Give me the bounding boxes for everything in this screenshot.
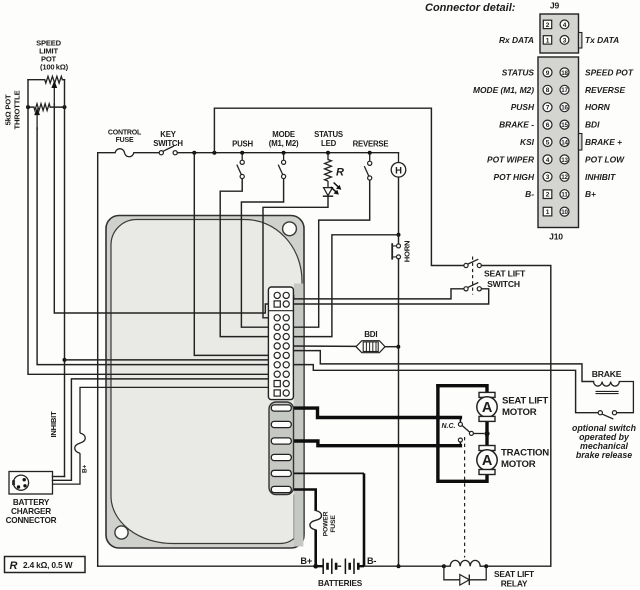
pin J10 right row3 [283,334,289,340]
pin J10 left row5 [274,352,280,358]
svg-text:SWITCH: SWITCH [487,279,520,289]
J9 connector box [540,14,579,53]
controller outer body [106,216,304,549]
svg-text:INHIBIT: INHIBIT [585,172,616,182]
pin J9-1 [274,301,280,307]
svg-text:STATUS: STATUS [314,130,343,139]
J10 detail pin 9 [543,68,552,77]
svg-text:MODE (M1, M2): MODE (M1, M2) [473,85,534,95]
pin J10 left row3 [274,334,280,340]
J10 detail pin 18 [560,68,569,77]
svg-text:LED: LED [321,139,337,148]
brake coil [594,382,634,413]
wire bottom rail right segment [364,565,444,567]
svg-text:Rx DATA: Rx DATA [499,35,534,45]
svg-text:TRACTION: TRACTION [501,448,549,459]
svg-text:SEAT LIFT: SEAT LIFT [484,269,526,279]
J10 detail pin 17 [560,85,569,94]
mounting hole top-right [283,222,297,236]
wire motor loop top [438,386,487,393]
wire mode to pin row2 [241,179,283,328]
svg-text:A: A [482,400,493,416]
J10 detail pin 2 [543,190,552,199]
svg-text:6: 6 [546,122,550,129]
J10 detail pin 8 [543,85,552,94]
wire M1 tab to seat lift motor top [291,408,460,417]
J9 detail pin 4 [560,20,569,29]
connector J9/J10 pin strip [268,287,293,400]
J10 connector box [538,57,579,228]
wire speed pot left lead [28,79,45,81]
J10 detail pin 5 [543,138,552,147]
svg-text:4: 4 [546,157,550,164]
horn pushbutton [392,243,400,259]
J10 detail pin 12 [560,172,569,181]
throttle pot wiper arrow [36,114,38,130]
svg-text:MODE: MODE [272,130,295,139]
wire reverse to pin row2 right [289,180,370,327]
wire bottom rail left segment [98,565,316,567]
brake coil core lines [596,391,619,393]
svg-text:B-: B- [367,556,376,566]
junction top rect branch [212,151,216,155]
svg-text:HORN: HORN [585,102,611,112]
status LED [323,181,342,196]
pin J10 left row9 [274,390,280,396]
svg-text:B+: B+ [585,189,596,199]
svg-text:BRAKE +: BRAKE + [585,137,622,147]
power tab 5 [271,470,291,476]
svg-text:INHIBIT: INHIBIT [49,411,58,438]
svg-text:B+: B+ [82,465,89,473]
svg-text:THROTTLE: THROTTLE [13,90,22,129]
svg-text:POT WIPER: POT WIPER [487,154,534,164]
junction inhibit branch [63,358,67,362]
svg-text:1: 1 [546,209,550,216]
pin J10 right row9 [283,390,289,396]
wire top loop to seat lift switch [214,108,463,265]
svg-text:2: 2 [546,192,550,199]
controller inner face [111,220,302,544]
seat lift switch upper pole [464,259,482,267]
svg-text:MOTOR: MOTOR [502,407,537,418]
J9 detail pin 1 [543,36,551,44]
pin J10 right row7 [283,371,289,377]
junction motor loop upper [435,415,440,420]
svg-text:PUSH: PUSH [232,140,253,149]
svg-text:16: 16 [561,105,568,112]
J10 detail pin 4 [543,155,552,164]
J9 detail pin 2 [543,20,551,28]
control fuse symbol [98,149,160,157]
mounting hole bottom-left [115,526,128,539]
resistor: speed limit pot body [45,76,63,83]
horn H circle [398,153,400,163]
J10 detail pin 10 [560,207,569,216]
pin J10 left row2 [274,324,280,330]
junction BDI tap [396,345,400,349]
seat lift switch link dashed [472,257,474,295]
brake release switch [598,411,616,419]
svg-text:BRAKE -: BRAKE - [499,120,534,130]
svg-text:3: 3 [563,37,567,44]
push switch [237,153,244,179]
seat lift relay coil [444,560,551,566]
svg-text:REVERSE: REVERSE [353,140,389,149]
wire horn button down to battery minus rail [398,259,400,566]
wire throttle pot left lead [28,106,34,108]
svg-text:8: 8 [546,87,550,94]
pin J10 right row6 [283,362,289,368]
wire motor loop left vertical [438,386,487,482]
svg-text:5: 5 [546,139,550,146]
mode switch [278,153,286,179]
J10 detail pin 16 [560,103,569,112]
R value legend box [5,557,86,573]
svg-text:5kΩ POT: 5kΩ POT [4,94,13,125]
svg-text:2.4 kΩ, 0.5 W: 2.4 kΩ, 0.5 W [23,560,73,570]
wire brake upper from pin row5 right [289,351,593,382]
stub to NC top [459,418,461,423]
controller connector flange column [294,284,304,547]
power fuse wire B+ [294,490,316,512]
svg-text:12: 12 [561,174,568,181]
wire brake lower from pin row6 right [289,365,598,413]
svg-text:H: H [395,165,402,176]
B- wire tab to battery [294,472,364,474]
power tab 4 [271,454,291,460]
pin J10 left row6 [274,362,280,368]
J9 detail pin 3 [560,36,569,45]
wire push to pin J10-7row3 [220,179,274,337]
J10 detail pin 3 [543,172,552,181]
batteries symbol [316,559,364,575]
J10 detail pin 6 [543,120,552,129]
svg-text:RELAY: RELAY [501,579,528,589]
speed pot wiper arrow [53,87,55,105]
junction motor loop lower [435,443,440,448]
junction KSI branch [192,151,196,155]
pin J10 left row4 [274,343,280,349]
seat lift motor M1 [477,392,497,421]
stub to NC bottom [459,442,461,446]
J10 detail pin 15 [560,120,569,129]
pin J10 right row4 [283,343,289,349]
svg-text:POT HIGH: POT HIGH [494,172,535,182]
svg-text:3: 3 [546,174,550,181]
svg-text:PUSH: PUSH [511,102,535,112]
pin J10 left row7 [274,371,280,377]
svg-text:Tx DATA: Tx DATA [585,35,619,45]
wire main key bus [177,152,398,154]
svg-text:9: 9 [546,70,550,77]
pin J9-3 [283,301,289,307]
svg-text:R: R [10,560,18,572]
svg-text:N.C.: N.C. [442,423,456,430]
svg-text:REVERSE: REVERSE [585,85,625,95]
power tab holder [269,402,294,495]
junction mode branch [282,151,286,155]
svg-text:SEAT LIFT: SEAT LIFT [502,396,548,407]
svg-text:BATTERY: BATTERY [13,498,50,507]
svg-text:2: 2 [546,22,550,29]
wire pin row4 right to BDI [289,345,356,347]
power tab 2 [271,421,291,427]
J10 detail pin 11 [560,190,569,199]
junction motors mid [484,431,489,436]
svg-text:CHARGER: CHARGER [11,507,51,516]
svg-text:Connector detail:: Connector detail: [425,2,516,14]
pin J10 right row5 [283,352,289,358]
key switch [159,146,177,155]
svg-text:BATTERIES: BATTERIES [318,579,363,588]
svg-text:15: 15 [561,122,568,129]
wire speed pot right lead [62,79,64,81]
J10 detail pin 13 [560,155,569,164]
junction pot left rail [26,105,30,109]
svg-text:J10: J10 [549,232,563,242]
svg-text:HORN: HORN [403,241,412,263]
junction push branch [240,151,244,155]
J10 detail pin 14 [560,138,569,147]
pin J10 left row1 [274,315,280,321]
junction led branch [326,151,330,155]
svg-text:10: 10 [561,209,568,216]
junction B+ battery [313,564,318,569]
power tab 1 [271,405,291,411]
wire seat lift sw lower right to J9 pin2 [289,289,489,304]
svg-text:R: R [336,167,344,179]
junction pot right rail [63,105,67,109]
pin J10 left row8 [274,381,280,387]
svg-text:KEY: KEY [160,130,176,139]
wire charger B+ with loop [53,387,285,484]
wire speed wiper to J9 pin1 [54,104,271,313]
wire charger inhibit [53,476,65,478]
svg-text:SPEED POT: SPEED POT [585,67,634,77]
pin J10 right row2 [283,324,289,330]
svg-text:(M1, M2): (M1, M2) [269,139,299,148]
wire pot-low / inhibit rail [64,80,66,477]
resistor: throttle pot body [34,104,50,111]
battery charger connector [9,472,53,495]
svg-text:11: 11 [561,192,568,199]
junction relay right [484,564,488,568]
junction bottom horn rail [397,564,401,568]
wire throttle wiper to pin J10-6 [37,128,274,365]
wire BDI to horn rail [385,346,398,348]
power tab 3 [271,438,291,444]
junction reverse branch [368,151,372,155]
svg-text:SWITCH: SWITCH [153,139,183,148]
svg-text:BRAKE: BRAKE [592,369,622,379]
svg-text:(100 kΩ): (100 kΩ) [40,63,69,72]
svg-text:A: A [482,453,493,469]
pin J10 right row1 [283,315,289,321]
wire led to pin row1 [263,197,328,318]
svg-text:SEAT LIFT: SEAT LIFT [494,569,535,579]
svg-text:J9: J9 [550,1,560,11]
junction horn row3 [397,233,401,237]
svg-text:BDI: BDI [364,330,377,339]
svg-text:MOTOR: MOTOR [501,459,536,470]
svg-text:CONTROL: CONTROL [108,130,142,137]
svg-text:FUSE: FUSE [330,515,337,533]
wire seat lift sw upper right to relay rail [482,266,551,567]
reverse switch [364,153,372,180]
svg-text:17: 17 [561,87,568,94]
svg-text:B-: B- [525,189,534,199]
wire between motors [485,421,488,446]
svg-text:1: 1 [546,37,550,44]
svg-text:B+: B+ [300,556,312,566]
J10 detail pin 1 [543,207,552,216]
svg-text:FUSE: FUSE [116,137,134,144]
svg-text:18: 18 [561,70,568,77]
wire M2 tab to NC lower [291,441,460,446]
wire pot-high rail to pin J10-7 [28,80,274,375]
svg-text:13: 13 [561,157,568,164]
junction relay left [442,564,446,568]
wire inhibit branch to pin J10-12 [65,360,284,374]
traction motor M2 [477,446,497,475]
pin J10 right row8 [283,381,289,387]
svg-text:14: 14 [561,139,568,146]
wire left B+ drop [97,153,99,567]
power tab 6 [271,486,291,492]
wire charger mid to pin J10-2 [53,379,278,480]
BDI buzzer symbol [356,341,385,353]
svg-text:STATUS: STATUS [502,67,535,77]
pin J9-4 [283,292,289,298]
resistor R (status led) [325,153,332,181]
pin J9-2 [274,292,280,298]
svg-text:7: 7 [546,105,550,112]
svg-text:POT LOW: POT LOW [585,154,625,164]
N.C. switch [458,422,484,442]
svg-text:brake release: brake release [576,450,632,460]
seat lift switch lower pole [464,283,482,291]
svg-text:BDI: BDI [585,120,600,130]
wire seat lift sw lower left to J9 [289,289,464,299]
diode [460,575,470,586]
wire KSI drop to pin J10-5 [194,153,274,356]
wire throttle pot right lead [50,106,64,108]
J10 detail pin 7 [543,103,552,112]
wire H to horn junction [398,177,400,244]
relay diode loop [444,566,486,580]
svg-text:4: 4 [563,22,567,29]
svg-text:POWER: POWER [323,511,330,536]
svg-text:KSI: KSI [520,137,535,147]
wire horn junction to pin row3 right [289,235,398,337]
svg-text:CONNECTOR: CONNECTOR [6,516,57,525]
NC link dashed to relay [464,437,466,558]
